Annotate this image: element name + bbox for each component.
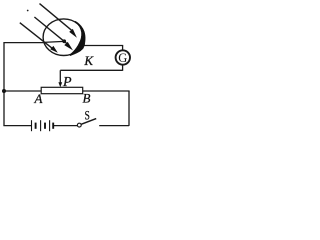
wire battery to switch: [53, 125, 77, 127]
wire right vertical bottom: [128, 91, 130, 126]
galvanometer G: [116, 50, 130, 64]
anode dot: [62, 39, 66, 43]
wire tube K to G corner: [84, 45, 123, 47]
junction dot left rail: [2, 89, 6, 93]
wire left vertical rail: [3, 42, 5, 126]
wire G bottom vertical: [122, 65, 124, 71]
svg-text:S: S: [84, 109, 89, 122]
light ray 3: [20, 23, 58, 53]
svg-text:G: G: [118, 51, 127, 65]
ray speck: [27, 10, 29, 12]
switch S: [77, 123, 81, 127]
slider arrow P: [58, 70, 62, 87]
anode lead: [44, 41, 65, 42]
phototube envelope: [43, 19, 84, 56]
cathode K arc: [70, 21, 85, 56]
wire bottom left to battery: [3, 125, 31, 127]
battery cells: [32, 120, 54, 131]
rheostat rectangle: [41, 87, 82, 93]
svg-text:A: A: [34, 91, 43, 106]
svg-text:P: P: [62, 75, 72, 90]
wire slider horizontal: [60, 69, 122, 71]
light ray 1: [40, 4, 77, 38]
light ray 2: [34, 17, 73, 50]
wire G top vertical: [122, 46, 124, 51]
svg-text:B: B: [83, 90, 91, 105]
wire left horizontal from tube to left rail: [4, 42, 45, 44]
wire rheostat left: [3, 90, 41, 92]
wire switch to bottom right corner: [99, 125, 129, 127]
wire rheostat right to corner: [83, 90, 130, 92]
svg-text:K: K: [83, 53, 94, 68]
